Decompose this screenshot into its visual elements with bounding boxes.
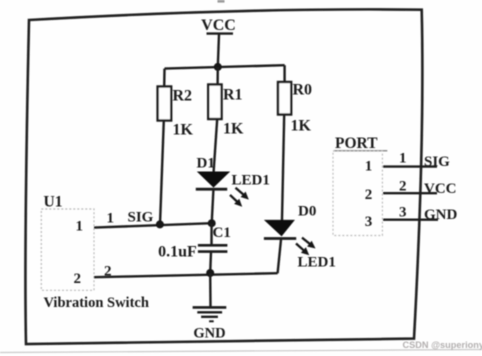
- svg-text:GND: GND: [193, 326, 225, 342]
- svg-text:Vibration Switch: Vibration Switch: [44, 295, 149, 311]
- wire U1 pin2 / ground rail: [94, 264, 278, 280]
- svg-text:VCC: VCC: [201, 17, 236, 34]
- junction top rail node: [214, 63, 222, 71]
- page rule line (faint scan line at bottom): [0, 350, 482, 353]
- wire R0 to D0 anode: [282, 115, 284, 221]
- svg-text:3: 3: [399, 205, 407, 221]
- svg-text:C1: C1: [213, 225, 231, 241]
- svg-text:1: 1: [107, 211, 115, 227]
- wire D1 cathode to SIG node: [212, 190, 214, 223]
- svg-text:R2: R2: [173, 88, 193, 105]
- wire R1 to D1 anode: [214, 119, 218, 172]
- top-center cut-off mark: [218, 0, 225, 3]
- resistor R0: [278, 82, 312, 135]
- wire U1 pin1 SIG net: [94, 210, 212, 228]
- wire R2 to SIG node: [160, 121, 164, 225]
- connector PORT box: [333, 135, 387, 236]
- junction SIG / D1 / C1: [208, 219, 216, 227]
- svg-text:GND: GND: [424, 207, 458, 223]
- svg-text:VCC: VCC: [424, 181, 457, 197]
- node VCC (power symbol): [201, 17, 236, 34]
- svg-text:D0: D0: [298, 204, 316, 220]
- svg-text:1: 1: [76, 219, 84, 235]
- wire rail to R2: [163, 69, 166, 87]
- wire rail to R0: [283, 65, 285, 82]
- wire PORT pin1: [383, 165, 437, 167]
- svg-text:D1: D1: [197, 156, 215, 172]
- resistor R2: [158, 87, 194, 139]
- svg-text:1: 1: [399, 151, 407, 167]
- wire PORT pin2: [383, 192, 437, 194]
- LED D1: [196, 156, 270, 207]
- svg-text:LED1: LED1: [298, 255, 336, 271]
- svg-text:3: 3: [365, 214, 373, 230]
- svg-text:SIG: SIG: [424, 154, 450, 170]
- svg-text:LED1: LED1: [232, 173, 270, 189]
- wire PORT pin3: [383, 218, 438, 220]
- junction SIG / R2: [156, 220, 164, 228]
- wire rail junction to R1: [216, 67, 219, 85]
- ground symbol GND: [193, 273, 227, 342]
- svg-text:R0: R0: [293, 82, 313, 99]
- svg-text:2: 2: [74, 271, 82, 287]
- wire D0 cathode to ground rail: [278, 240, 281, 274]
- junction ground rail / C1 / GND: [206, 269, 214, 277]
- svg-text:SIG: SIG: [128, 210, 154, 226]
- LED D0: [264, 204, 336, 271]
- component U1 box: [41, 194, 149, 312]
- capacitor C1: [158, 223, 231, 273]
- svg-text:1K: 1K: [291, 118, 312, 135]
- svg-text:U1: U1: [44, 194, 63, 211]
- schematic border frame: [25, 9, 422, 344]
- svg-text:1K: 1K: [223, 121, 244, 138]
- svg-text:1K: 1K: [173, 122, 194, 139]
- svg-text:2: 2: [399, 179, 407, 195]
- wire VCC bar to top rail junction: [218, 34, 219, 67]
- svg-text:2: 2: [365, 187, 373, 203]
- LED1 light arrows: [230, 188, 249, 207]
- svg-text:1: 1: [365, 159, 373, 175]
- wire top supply rail: [165, 65, 285, 68]
- resistor R1: [208, 85, 244, 138]
- LED light arrows: [296, 238, 316, 256]
- svg-text:R1: R1: [223, 87, 243, 104]
- svg-text:0.1uF: 0.1uF: [158, 244, 197, 261]
- svg-text:CSDN @superiony: CSDN @superiony: [403, 340, 482, 350]
- svg-text:2: 2: [104, 264, 112, 280]
- svg-text:PORT: PORT: [335, 135, 378, 152]
